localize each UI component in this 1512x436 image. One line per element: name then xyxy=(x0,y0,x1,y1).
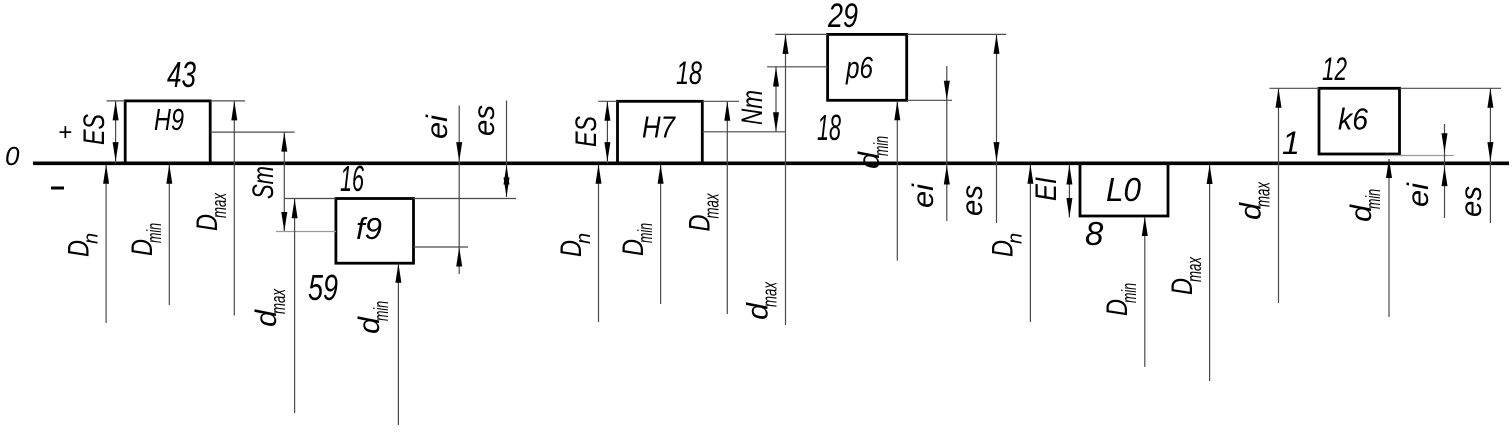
minus sign below zero line xyxy=(51,187,64,190)
dimension line EI (d3) xyxy=(1068,165,1070,218)
dimension line ES (H7) xyxy=(606,101,608,163)
arrowhead EI bottom xyxy=(1066,198,1072,218)
leader line Dmin (d1) xyxy=(168,165,170,305)
svg-text:43: 43 xyxy=(167,54,196,95)
arrowhead Dn (d1) xyxy=(103,164,109,184)
arrowhead es top (d3) xyxy=(1487,88,1493,108)
leader line Dn (d2) xyxy=(598,165,600,322)
leader line dmax (d1) xyxy=(294,199,296,413)
svg-text:es: es xyxy=(468,105,501,136)
arrowhead es top (d2) xyxy=(994,34,1000,54)
H9 top extension left xyxy=(107,100,126,102)
svg-text:ES: ES xyxy=(570,116,603,147)
hole tolerance zone H9 xyxy=(125,101,210,163)
shaft tolerance zone k6 xyxy=(1319,88,1400,154)
svg-text:EI: EI xyxy=(1030,177,1063,201)
arrowhead ei bottom (d2) xyxy=(944,165,950,185)
hole tolerance zone H7 xyxy=(618,101,703,163)
arrowhead es bottom (d2) xyxy=(994,142,1000,162)
arrowhead dmax (d3) xyxy=(1276,88,1282,108)
arrowhead Dmax (d2) xyxy=(724,101,730,121)
f9 lower extension right xyxy=(414,246,469,248)
svg-text:16: 16 xyxy=(340,158,365,199)
f9 top extension left xyxy=(284,198,336,200)
svg-text:ES: ES xyxy=(78,114,111,145)
leader line Dmin (d3) xyxy=(1144,217,1146,367)
arrowhead EI top xyxy=(1066,165,1072,185)
dimension line ei (d1) xyxy=(458,106,460,275)
arrowhead Dmin (d2) xyxy=(658,164,664,184)
svg-text:L0: L0 xyxy=(1106,171,1142,208)
svg-text:f9: f9 xyxy=(356,211,382,246)
svg-text:k6: k6 xyxy=(1338,102,1369,137)
svg-text:es: es xyxy=(956,185,989,216)
shaft tolerance zone p6 xyxy=(828,34,907,100)
leader line Dmax (d3) xyxy=(1209,165,1211,381)
dimension line ES (H9) xyxy=(115,101,117,163)
svg-text:12: 12 xyxy=(1322,51,1347,87)
dimension line Sm xyxy=(283,132,285,231)
leader line Dmin (d2) xyxy=(660,165,662,304)
arrowhead ES bottom xyxy=(113,142,119,162)
svg-text:H9: H9 xyxy=(154,102,184,137)
svg-text:1: 1 xyxy=(1282,125,1300,161)
dimension line es (d3) xyxy=(1489,88,1491,223)
arrowhead ei bottom (d3) xyxy=(1442,167,1448,187)
svg-text:+: + xyxy=(58,119,72,146)
arrowhead ei top (d3) xyxy=(1442,133,1448,153)
arrowhead Dmax (d1) xyxy=(231,101,237,121)
H7 mid extension right xyxy=(702,131,785,133)
svg-text:p6: p6 xyxy=(845,50,873,85)
arrowhead Dmax (d3) xyxy=(1207,165,1213,185)
k6 top extension left xyxy=(1270,87,1320,89)
leader line Dn (d3) xyxy=(1029,165,1031,322)
arrowhead dmax (d1) xyxy=(292,199,298,219)
arrowhead ES top xyxy=(113,101,119,121)
leader line dmin (d2) xyxy=(896,101,898,261)
leader line dmin (d1) xyxy=(397,264,399,426)
arrowhead Dmin (d3) xyxy=(1142,217,1148,237)
svg-text:29: 29 xyxy=(827,0,858,35)
arrowhead Dn (d2) xyxy=(596,164,602,184)
arrowhead dmax (d2) xyxy=(783,34,789,54)
svg-text:Nm: Nm xyxy=(736,90,769,125)
hole tolerance zone L0 xyxy=(1080,163,1168,216)
arrowhead ei top (d2) xyxy=(944,81,950,101)
k6 top extension right xyxy=(1400,87,1502,89)
arrowhead Sm top xyxy=(281,132,287,152)
shaft tolerance zone f9 xyxy=(336,199,414,264)
f9 top extension right xyxy=(414,198,517,200)
p6 top extension left xyxy=(775,33,827,35)
svg-text:18: 18 xyxy=(817,107,841,148)
arrowhead Sm bottom xyxy=(281,212,287,232)
svg-text:Sm: Sm xyxy=(247,166,280,199)
p6 mid extension left xyxy=(767,66,828,68)
p6 top extension right xyxy=(907,33,1007,35)
H9 mid extension right xyxy=(210,131,294,133)
arrowhead Nm bottom xyxy=(773,112,779,132)
svg-text:8: 8 xyxy=(1085,215,1104,252)
p6 bottom extension right xyxy=(907,99,952,101)
arrowhead dmin (d3) xyxy=(1386,159,1392,179)
arrowhead es bottom (d3) xyxy=(1487,142,1493,162)
arrowhead Nm top xyxy=(773,67,779,87)
svg-text:ei: ei xyxy=(421,114,454,139)
arrowhead dmin (d1) xyxy=(395,263,401,283)
svg-text:es: es xyxy=(1455,186,1488,217)
arrowhead Dmin (d1) xyxy=(166,164,172,184)
arrowhead ES bottom (H7) xyxy=(604,142,610,162)
leader line dmax (d2) xyxy=(785,34,787,325)
arrowhead es top (d1) xyxy=(504,165,510,185)
leader line Dn (d1) xyxy=(105,165,107,323)
dimension line ei (d3) xyxy=(1444,124,1446,218)
arrowhead dmin (d2) xyxy=(894,101,900,121)
dimension line Nm xyxy=(775,67,777,132)
arrowhead ES top (H7) xyxy=(604,101,610,121)
leader line Dmax (d1) xyxy=(233,101,235,316)
dimension line ei (d2) xyxy=(946,66,948,221)
dimension line es (d1) xyxy=(506,101,508,198)
H7 top extension right xyxy=(702,100,739,102)
svg-text:18: 18 xyxy=(676,55,702,91)
zero line (datum) xyxy=(33,162,1509,166)
svg-text:59: 59 xyxy=(308,267,338,308)
svg-text:0: 0 xyxy=(5,141,20,171)
svg-text:H7: H7 xyxy=(642,110,676,145)
H7 top extension left xyxy=(598,100,617,102)
arrowhead ei lower (d1) xyxy=(456,247,462,267)
leader line Dmax (d2) xyxy=(726,101,728,314)
arrowhead es bottom (d1) xyxy=(504,178,510,198)
leader line dmax (d3) xyxy=(1278,88,1280,303)
arrowhead ei at zero line (d1) xyxy=(456,142,462,162)
f9 mid extension left xyxy=(276,231,336,233)
leader line dmin (d3) xyxy=(1388,159,1390,317)
k6 bottom extension right xyxy=(1385,155,1454,157)
dimension line es (d2) xyxy=(996,34,998,223)
H9 top extension right xyxy=(210,100,245,102)
svg-text:ei: ei xyxy=(907,183,940,208)
svg-text:ei: ei xyxy=(1402,182,1435,207)
arrowhead Dn (d3) xyxy=(1027,164,1033,184)
